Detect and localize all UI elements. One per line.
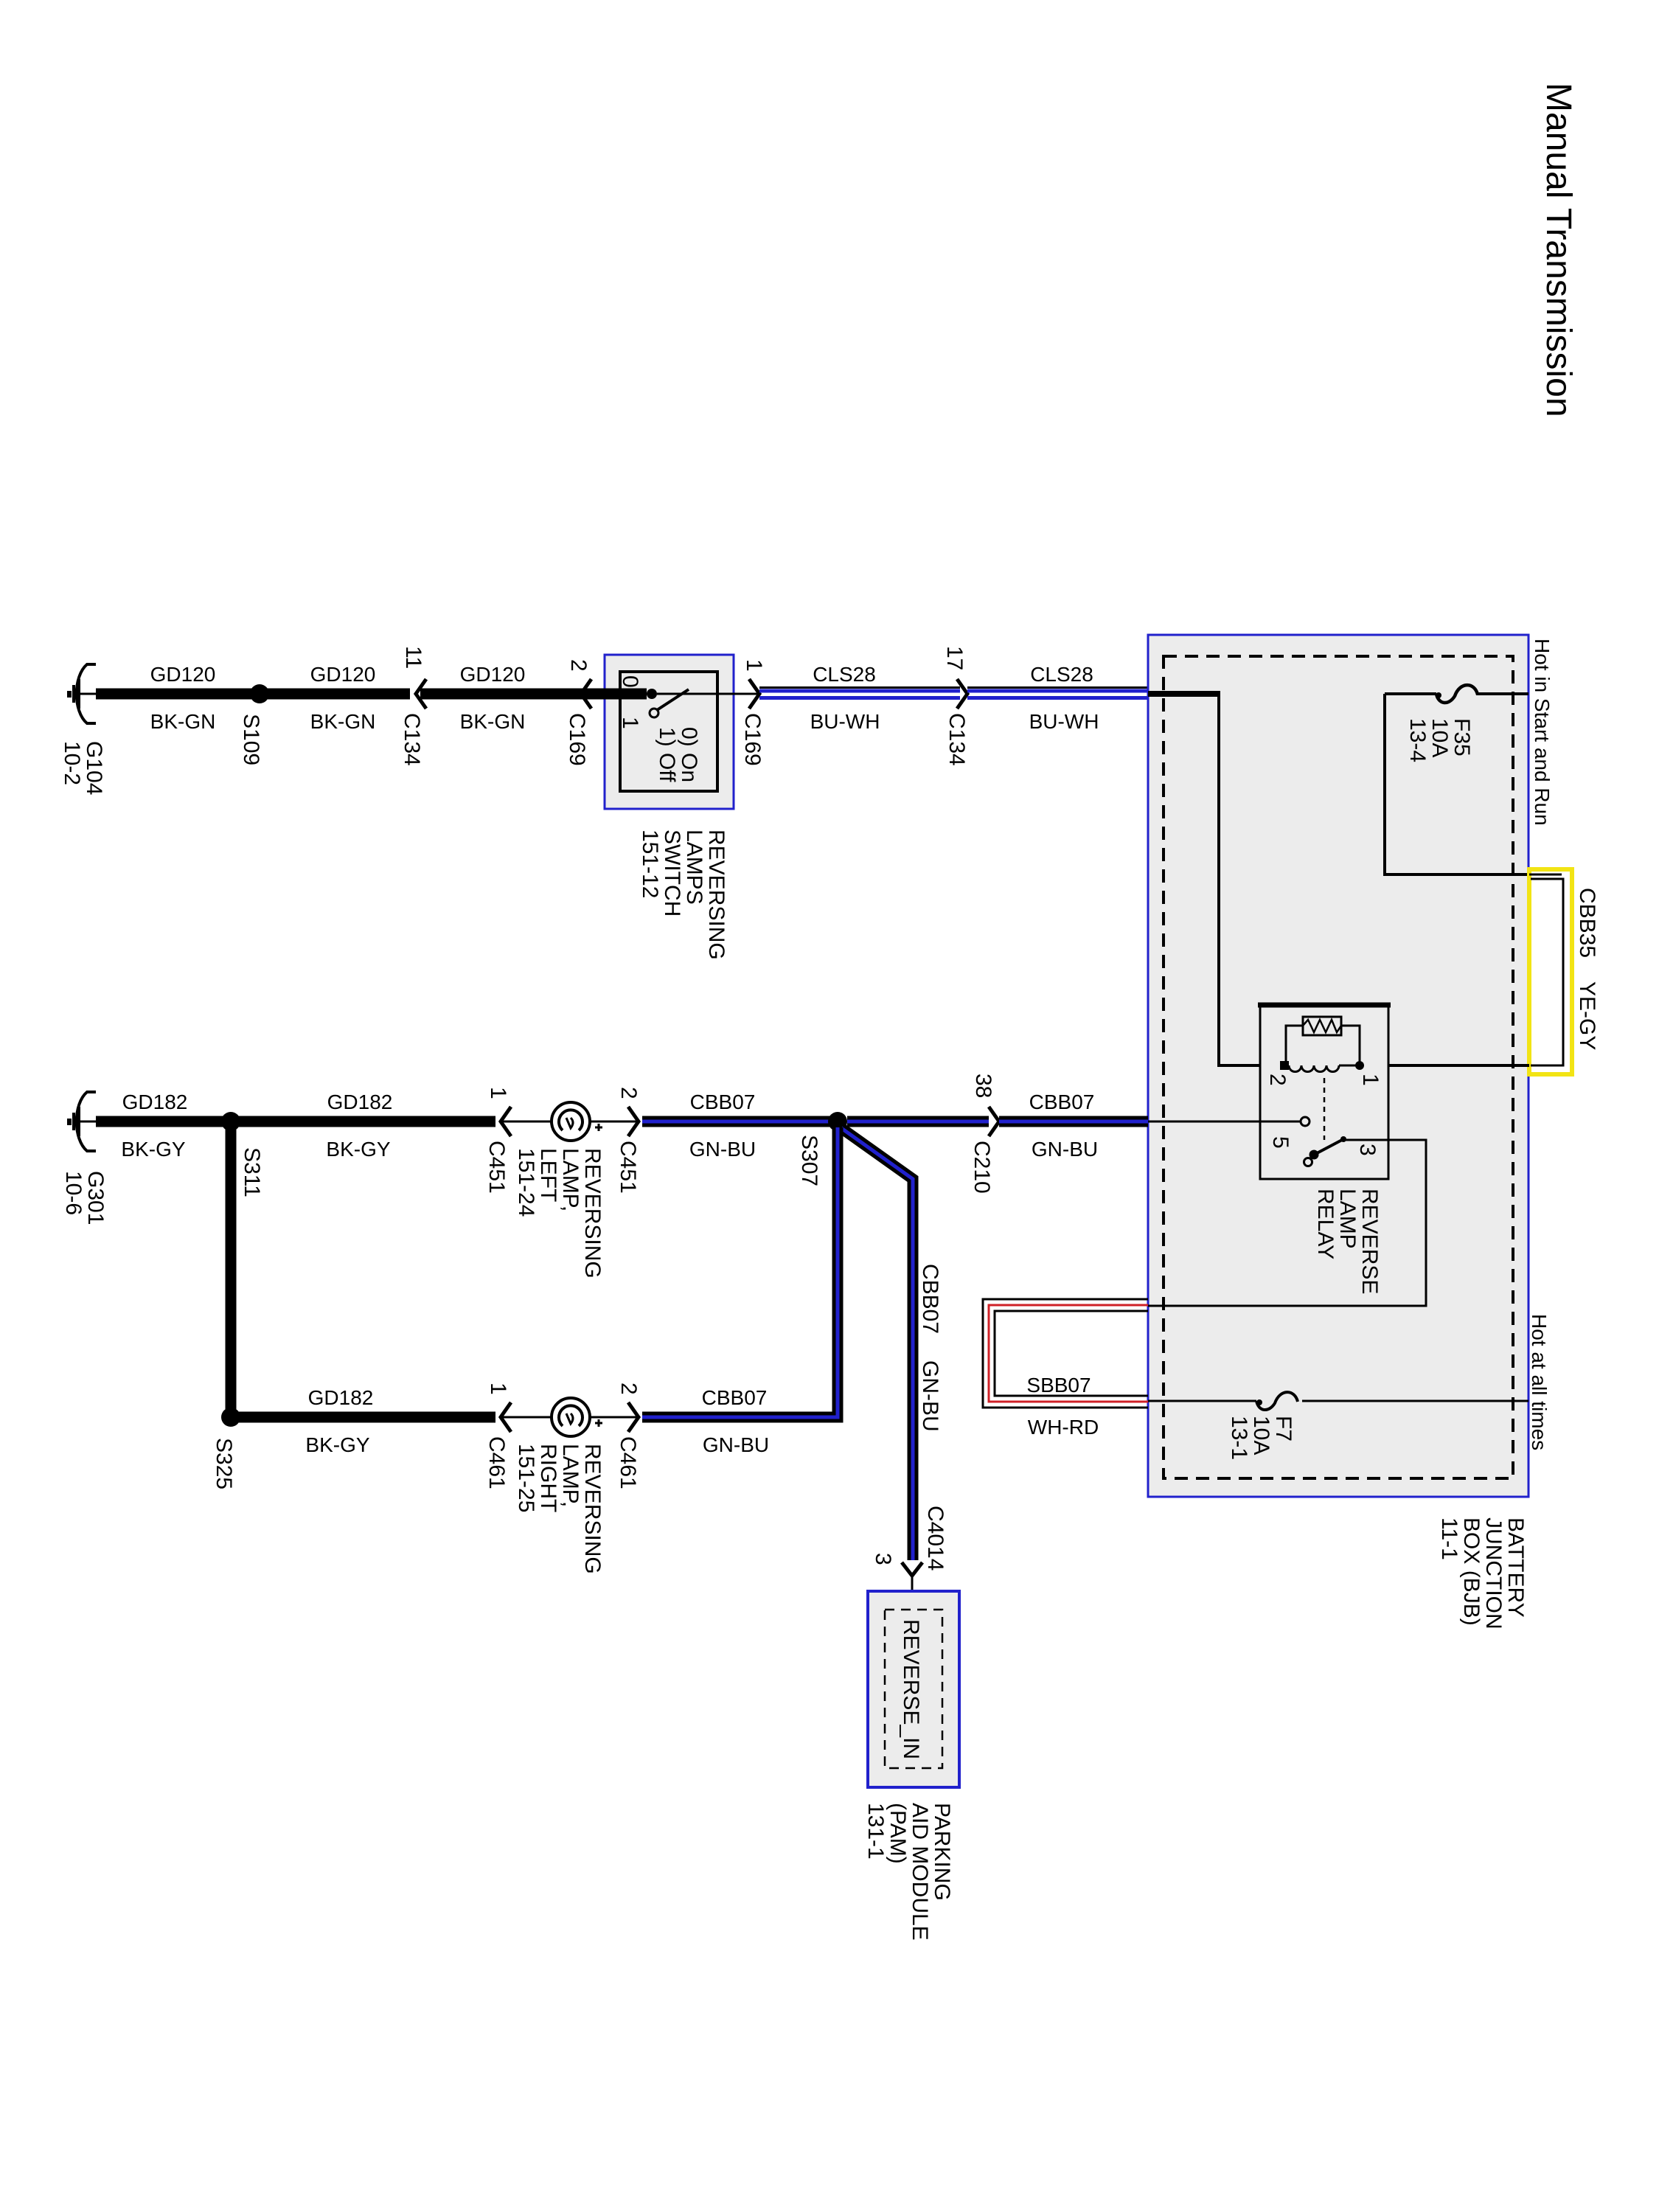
wire CLS28 BU-WH (C134 to BJB)	[967, 688, 1148, 698]
connector C169 pin 2	[581, 679, 591, 709]
connector C134 pin 11	[416, 679, 426, 709]
wire relay pin 3 to SBB07	[1148, 1140, 1426, 1306]
svg-text:BK-GN: BK-GN	[310, 710, 376, 733]
svg-text:BATTERY: BATTERY	[1503, 1517, 1528, 1618]
svg-text:1) Off: 1) Off	[655, 727, 679, 782]
wire S307 to C210	[847, 1116, 989, 1127]
svg-text:2: 2	[566, 659, 591, 672]
connector C461 pin 2	[628, 1402, 639, 1432]
splice S325	[221, 1408, 240, 1427]
svg-text:10A: 10A	[1427, 718, 1452, 757]
svg-text:1: 1	[618, 717, 642, 729]
wire C210 to relay pin 5	[1148, 1121, 1300, 1123]
svg-text:BK-GN: BK-GN	[150, 710, 216, 733]
svg-text:C210: C210	[970, 1141, 994, 1194]
fuse F35 10A	[1436, 685, 1478, 703]
ground G104	[69, 664, 97, 723]
connector C210 pin 38	[989, 1107, 999, 1136]
svg-text:REVERSE: REVERSE	[1357, 1189, 1382, 1294]
wire S307 diagonal to C4014	[841, 1128, 913, 1560]
svg-text:WH-RD: WH-RD	[1028, 1416, 1099, 1439]
svg-text:RELAY: RELAY	[1313, 1189, 1338, 1259]
svg-text:GD120: GD120	[310, 663, 376, 686]
wire into switch	[580, 689, 647, 700]
svg-text:REVERSING: REVERSING	[704, 829, 728, 960]
svg-text:PARKING: PARKING	[930, 1803, 954, 1901]
wire GD182 (G301 to S311)	[96, 1116, 226, 1127]
svg-text:GN-BU: GN-BU	[1032, 1138, 1098, 1161]
battery junction box (BJB)	[1148, 635, 1528, 1497]
wire CLS28 inside BJB	[1148, 691, 1219, 697]
switch contact 1	[650, 709, 658, 717]
svg-text:BK-GY: BK-GY	[326, 1138, 390, 1161]
svg-text:G104: G104	[82, 741, 106, 795]
svg-text:Hot in Start and Run: Hot in Start and Run	[1531, 639, 1554, 826]
svg-text:C134: C134	[945, 713, 969, 766]
svg-text:C461: C461	[484, 1436, 509, 1489]
wire through switch	[657, 693, 758, 695]
reverse lamp relay box	[1260, 1005, 1388, 1179]
svg-text:2: 2	[616, 1382, 641, 1395]
connector C451 pin 1	[501, 1107, 511, 1136]
svg-text:GD120: GD120	[150, 663, 216, 686]
fuse F7 10A	[1256, 1392, 1298, 1410]
svg-text:BU-WH: BU-WH	[1029, 710, 1099, 733]
svg-text:CLS28: CLS28	[1030, 663, 1093, 686]
svg-text:BK-GY: BK-GY	[305, 1433, 369, 1456]
svg-text:CBB07: CBB07	[690, 1091, 756, 1113]
svg-text:13-1: 13-1	[1227, 1416, 1251, 1460]
splice S109	[250, 684, 269, 703]
splice S311	[221, 1112, 240, 1131]
connector SBB07 loop	[983, 1299, 1148, 1408]
svg-text:151-25: 151-25	[514, 1444, 538, 1512]
svg-text:S109: S109	[239, 714, 263, 765]
svg-text:C169: C169	[565, 713, 589, 766]
wire to right lamp	[501, 1416, 552, 1419]
svg-text:CBB07: CBB07	[1029, 1091, 1095, 1113]
relay armature link	[1324, 1078, 1326, 1140]
wire CBB07 GN-BU (lamp left to S307)	[642, 1116, 832, 1127]
svg-text:F7: F7	[1271, 1416, 1295, 1441]
svg-text:BK-GY: BK-GY	[121, 1138, 185, 1161]
wire lamp to C461 pin 2	[589, 1416, 639, 1419]
svg-text:S325: S325	[212, 1438, 236, 1489]
svg-text:GD120: GD120	[460, 663, 526, 686]
wire CBB35 to relay pin 1	[1363, 1064, 1529, 1067]
wire C4014 to PAM	[911, 1576, 914, 1612]
svg-text:GN-BU: GN-BU	[918, 1360, 942, 1432]
svg-text:2: 2	[616, 1087, 641, 1099]
svg-text:REVERSING: REVERSING	[580, 1444, 605, 1574]
wire CBB07 GN-BU (C210 to BJB)	[999, 1116, 1148, 1127]
svg-text:Hot at all times: Hot at all times	[1528, 1314, 1551, 1450]
parking aid module box	[868, 1591, 959, 1787]
svg-text:1: 1	[742, 659, 766, 672]
svg-text:10A: 10A	[1249, 1416, 1273, 1455]
svg-text:C4014: C4014	[923, 1506, 947, 1571]
wire S307 down to right lamp	[642, 1127, 838, 1417]
svg-text:YE-GY: YE-GY	[1575, 981, 1599, 1050]
svg-text:GD182: GD182	[308, 1386, 374, 1409]
svg-text:BOX (BJB): BOX (BJB)	[1459, 1517, 1484, 1626]
svg-text:CBB07: CBB07	[702, 1386, 768, 1409]
svg-text:151-12: 151-12	[638, 829, 662, 898]
svg-text:S311: S311	[240, 1147, 264, 1197]
svg-text:F35: F35	[1450, 718, 1474, 757]
svg-text:Manual Transmission: Manual Transmission	[1539, 83, 1578, 417]
connector C451 pin 2	[628, 1107, 639, 1136]
svg-text:11-1: 11-1	[1437, 1517, 1461, 1560]
svg-text:C134: C134	[400, 713, 424, 766]
wire GD182 (S311 to C451)	[236, 1116, 495, 1127]
svg-text:1: 1	[1358, 1074, 1382, 1086]
switch blade	[657, 689, 689, 710]
svg-text:SWITCH: SWITCH	[660, 829, 684, 917]
svg-text:LAMP,: LAMP,	[558, 1148, 582, 1211]
svg-text:LAMPS: LAMPS	[682, 829, 706, 905]
wire to left lamp	[501, 1121, 552, 1123]
relay resistor	[1303, 1017, 1341, 1035]
wire lamp to C451 pin 2	[589, 1121, 639, 1123]
svg-text:2: 2	[1265, 1074, 1290, 1086]
wire F7 hot at all times	[1148, 1400, 1256, 1402]
svg-text:10-6: 10-6	[61, 1171, 86, 1215]
svg-text:3: 3	[871, 1553, 895, 1565]
svg-text:GN-BU: GN-BU	[689, 1138, 756, 1161]
svg-text:(PAM): (PAM)	[886, 1803, 910, 1864]
svg-text:17: 17	[942, 646, 967, 670]
connector C169 pin 1	[749, 679, 759, 709]
relay pin 2	[1280, 1061, 1289, 1070]
svg-text:151-24: 151-24	[514, 1148, 538, 1217]
ground G301	[69, 1092, 97, 1151]
switch contact 0	[647, 689, 657, 699]
svg-text:13-4: 13-4	[1405, 718, 1430, 762]
relay coil	[1289, 1065, 1339, 1072]
wire GD120 (S109 to C134)	[264, 689, 410, 700]
svg-text:38: 38	[971, 1074, 995, 1098]
svg-text:REVERSING: REVERSING	[580, 1148, 605, 1279]
svg-text:LAMP: LAMP	[1335, 1189, 1360, 1249]
svg-text:BU-WH: BU-WH	[810, 710, 880, 733]
svg-text:C461: C461	[616, 1436, 640, 1489]
relay blade	[1317, 1139, 1343, 1153]
relay pin 1	[1355, 1061, 1364, 1070]
svg-text:G301: G301	[83, 1171, 108, 1225]
svg-text:5: 5	[1268, 1136, 1293, 1149]
connector CBB35 YE-GY	[1529, 869, 1572, 1074]
svg-text:RIGHT: RIGHT	[536, 1444, 560, 1512]
svg-text:LAMP,: LAMP,	[558, 1444, 582, 1507]
svg-text:S307: S307	[797, 1135, 821, 1186]
svg-text:0) On: 0) On	[677, 727, 701, 782]
svg-text:GD182: GD182	[327, 1091, 393, 1113]
reversing lamp left	[552, 1102, 590, 1141]
wire to relay coil pin 2	[1219, 691, 1281, 1065]
reversing lamp right	[552, 1398, 590, 1436]
wire GD182 (S325 to C461)	[236, 1412, 495, 1423]
svg-text:LEFT: LEFT	[536, 1148, 560, 1202]
relay pin 5	[1301, 1117, 1310, 1126]
svg-text:11: 11	[401, 646, 425, 669]
svg-text:1: 1	[486, 1087, 510, 1099]
svg-text:GN-BU: GN-BU	[703, 1433, 769, 1456]
svg-text:131-1: 131-1	[863, 1803, 888, 1860]
svg-text:CLS28: CLS28	[813, 663, 876, 686]
wire CLS28 BU-WH (C169 to C134)	[759, 688, 960, 698]
wire GD120 (G104 to S109)	[96, 689, 255, 700]
svg-text:CBB35: CBB35	[1575, 888, 1599, 958]
wire GD120 (C134 to C169)	[420, 689, 580, 700]
wire F35 feed	[1385, 692, 1436, 695]
svg-text:1: 1	[486, 1382, 510, 1395]
reversing lamps switch box	[605, 655, 734, 809]
svg-text:REVERSE_IN: REVERSE_IN	[899, 1619, 923, 1759]
connector C461 pin 1	[501, 1402, 511, 1432]
wire S311 to S325	[226, 1127, 237, 1412]
svg-text:CBB07: CBB07	[918, 1264, 942, 1334]
wire F35 to CBB35	[1385, 694, 1529, 874]
svg-text:C451: C451	[484, 1141, 509, 1194]
svg-text:SBB07: SBB07	[1026, 1374, 1091, 1397]
connector C134 pin 17	[957, 679, 967, 709]
svg-text:C451: C451	[616, 1141, 640, 1194]
svg-text:AID MODULE: AID MODULE	[908, 1803, 932, 1941]
splice S307	[828, 1112, 847, 1131]
svg-text:10-2: 10-2	[60, 741, 84, 785]
svg-text:C169: C169	[740, 713, 765, 766]
svg-text:0: 0	[618, 675, 642, 688]
svg-text:JUNCTION: JUNCTION	[1481, 1517, 1506, 1630]
svg-text:GD182: GD182	[122, 1091, 188, 1113]
svg-text:BK-GN: BK-GN	[460, 710, 526, 733]
connector C4014 pin 3	[902, 1562, 922, 1576]
svg-text:3: 3	[1355, 1144, 1380, 1156]
